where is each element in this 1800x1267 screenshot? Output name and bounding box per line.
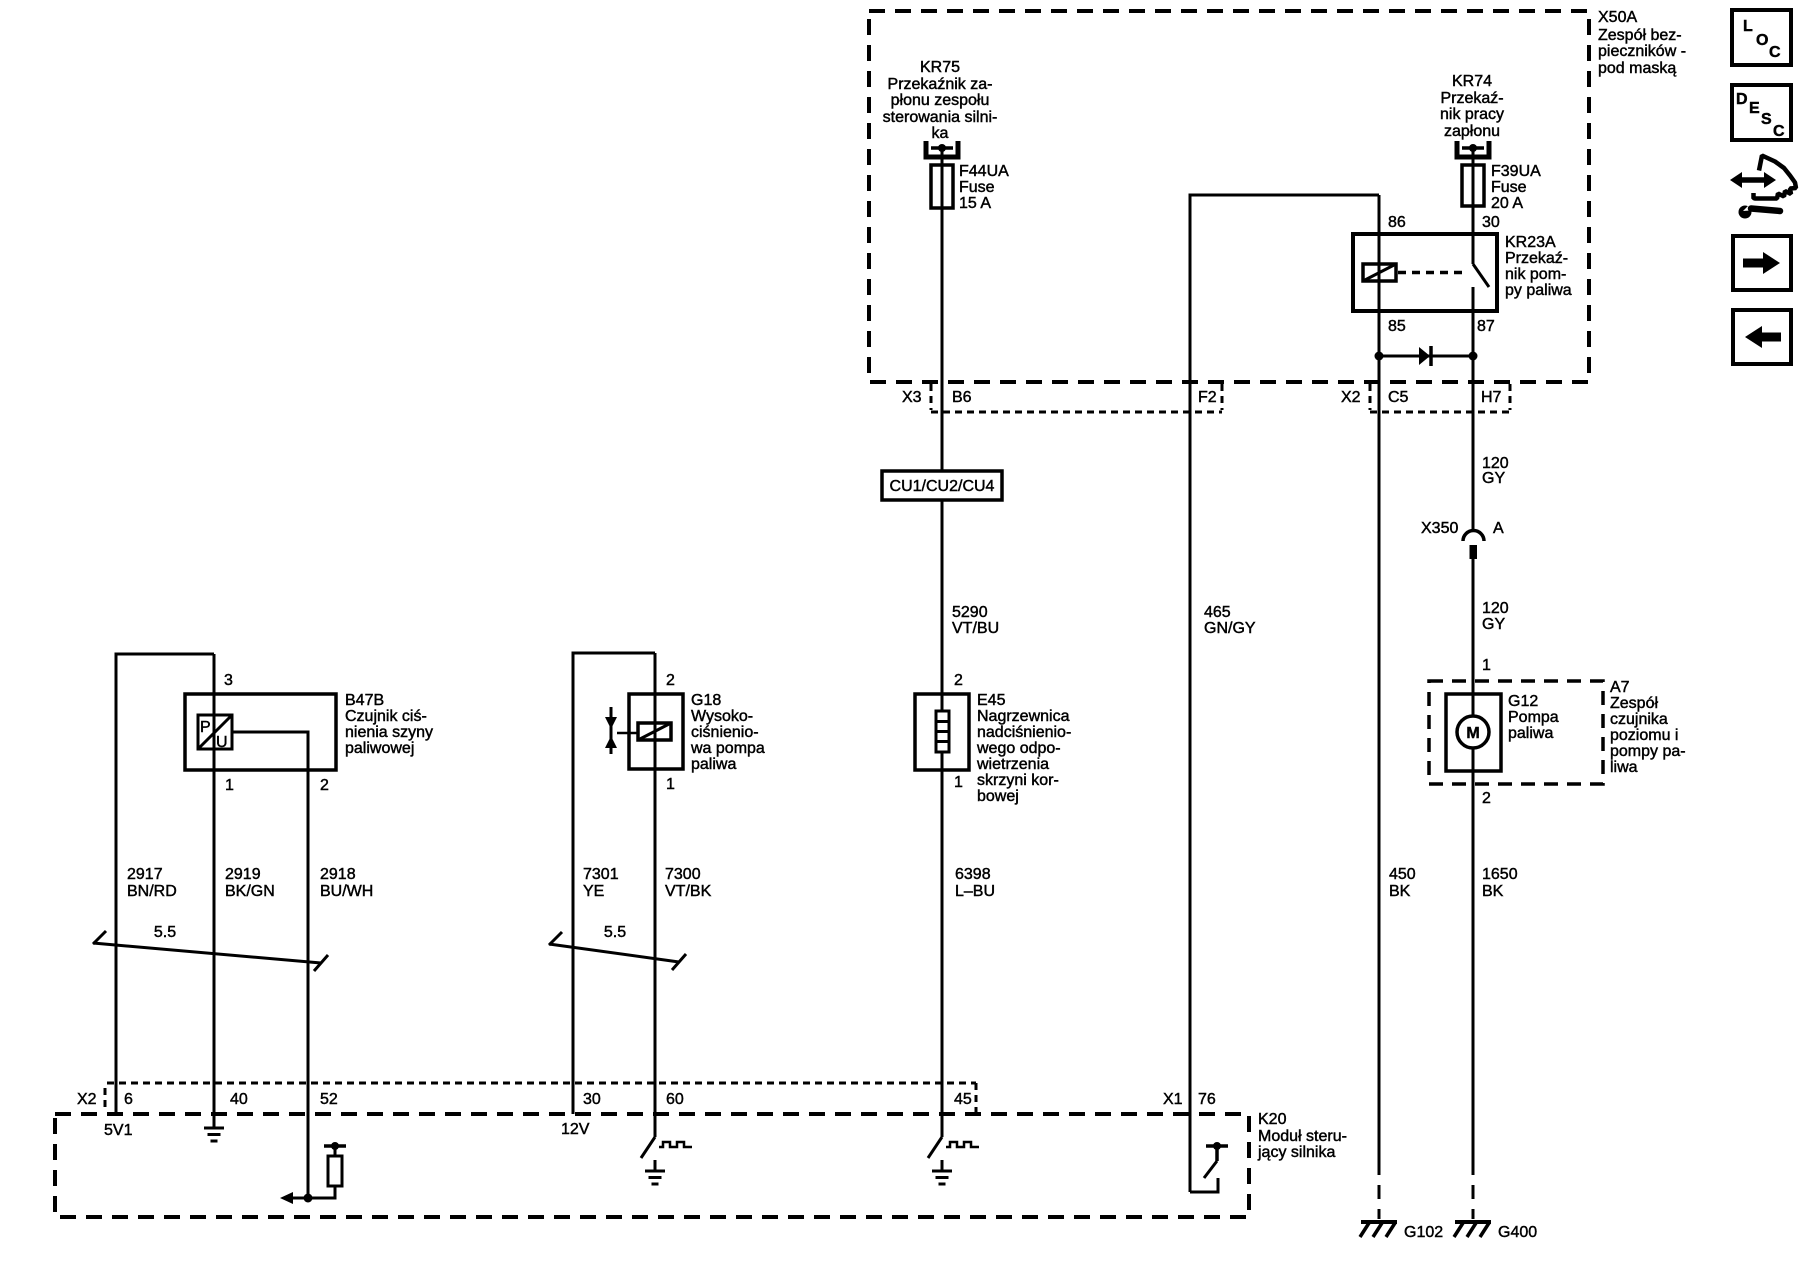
svg-text:BK: BK (1389, 883, 1411, 900)
PWM symbol pin 60 (659, 1142, 692, 1147)
pull-up resistor and arrow at pin 52 (280, 1142, 346, 1204)
svg-text:15 A: 15 A (959, 195, 991, 212)
pump G18 box (629, 694, 683, 769)
svg-text:2: 2 (666, 672, 675, 689)
svg-text:G400: G400 (1498, 1224, 1537, 1241)
svg-text:B47B: B47B (345, 692, 384, 709)
svg-text:KR23A: KR23A (1505, 234, 1556, 251)
svg-text:KR74: KR74 (1452, 73, 1492, 90)
sensor B47B box (185, 694, 336, 770)
svg-text:Zespół bez-: Zespół bez- (1598, 27, 1682, 44)
svg-text:76: 76 (1198, 1091, 1216, 1108)
svg-text:Przekaźnik za-: Przekaźnik za- (888, 76, 993, 93)
svg-text:bowej: bowej (977, 788, 1019, 805)
svg-text:X2: X2 (77, 1091, 97, 1108)
svg-text:F39UA: F39UA (1491, 163, 1541, 180)
relay contact symbol KR75 (926, 141, 958, 157)
svg-text:paliwowej: paliwowej (345, 740, 414, 757)
svg-text:2918: 2918 (320, 866, 356, 883)
svg-text:1: 1 (666, 776, 675, 793)
svg-text:py paliwa: py paliwa (1505, 282, 1572, 299)
svg-text:C: C (1773, 123, 1785, 140)
connector strip K20 X2 dotted line (107, 1082, 976, 1085)
svg-text:F2: F2 (1198, 389, 1217, 406)
svg-text:5.5: 5.5 (154, 924, 176, 941)
svg-text:CU1/CU2/CU4: CU1/CU2/CU4 (890, 478, 995, 495)
svg-text:ciśnienio-: ciśnienio- (691, 724, 759, 741)
svg-text:5290: 5290 (952, 604, 988, 621)
svg-text:3: 3 (224, 672, 233, 689)
fuse F44UA (931, 165, 953, 208)
svg-text:86: 86 (1388, 214, 1406, 231)
wire 465 GN/GY (1190, 195, 1379, 1192)
svg-text:GY: GY (1482, 470, 1505, 487)
svg-text:X3: X3 (902, 389, 922, 406)
wire gauge 5.5 annotation G18 (549, 932, 686, 970)
svg-text:YE: YE (583, 883, 604, 900)
svg-text:skrzyni kor-: skrzyni kor- (977, 772, 1059, 789)
svg-text:VT/BK: VT/BK (665, 883, 712, 900)
svg-text:L: L (1743, 18, 1753, 35)
icon arrow left (1733, 310, 1791, 364)
ground G400 (1454, 1222, 1491, 1237)
P/U transducer symbol (198, 715, 232, 749)
svg-text:Zespół: Zespół (1610, 695, 1658, 712)
wire fuse 30 to relay contact (1472, 148, 1475, 264)
svg-text:7301: 7301 (583, 866, 619, 883)
wire 87 down (1472, 287, 1475, 531)
svg-text:C5: C5 (1388, 389, 1409, 406)
svg-text:40: 40 (230, 1091, 248, 1108)
svg-text:5V1: 5V1 (104, 1122, 133, 1139)
svg-text:paliwa: paliwa (691, 756, 736, 773)
svg-text:A7: A7 (1610, 679, 1630, 696)
svg-text:5.5: 5.5 (604, 924, 626, 941)
G12 motor circle (1457, 716, 1489, 748)
svg-text:liwa: liwa (1610, 759, 1638, 776)
connector strip right end (975, 1083, 978, 1113)
svg-text:GN/GY: GN/GY (1204, 620, 1256, 637)
svg-text:2919: 2919 (225, 866, 261, 883)
svg-text:BK: BK (1482, 883, 1504, 900)
wire gauge 5.5 annotation left (93, 931, 328, 971)
icon vehicle with arrow and wrench (1730, 156, 1796, 219)
ground in K20 pin 60 (645, 1171, 665, 1184)
pump G12 box (1446, 694, 1501, 771)
svg-text:Przekaź-: Przekaź- (1440, 90, 1503, 107)
wire 2918 BU/WH (232, 732, 308, 1198)
svg-text:X50A: X50A (1598, 9, 1637, 26)
switch in K20 pin 45 (928, 1137, 942, 1171)
svg-text:nik pracy: nik pracy (1440, 106, 1504, 123)
text labels top (883, 59, 1504, 142)
fuse block X50A dashed box (869, 11, 1589, 382)
svg-text:nik pom-: nik pom- (1505, 266, 1566, 283)
svg-text:E45: E45 (977, 692, 1006, 709)
svg-text:6: 6 (124, 1091, 133, 1108)
svg-text:pompy pa-: pompy pa- (1610, 743, 1686, 760)
svg-text:pod maską: pod maską (1598, 60, 1676, 77)
diode across 85-87 (1375, 346, 1478, 366)
wire 2917 BN/RD (116, 654, 214, 1114)
svg-text:paliwa: paliwa (1508, 725, 1553, 742)
svg-text:wego odpo-: wego odpo- (976, 740, 1061, 757)
svg-text:D: D (1736, 91, 1748, 108)
connector divider X3 (930, 384, 933, 410)
relay contact symbol KR74 (1457, 141, 1489, 157)
svg-text:Nagrzewnica: Nagrzewnica (977, 708, 1070, 725)
svg-text:GY: GY (1482, 616, 1505, 633)
svg-text:52: 52 (320, 1091, 338, 1108)
svg-text:U: U (216, 734, 228, 751)
svg-text:BN/RD: BN/RD (127, 883, 177, 900)
connector divider X2 (1369, 384, 1372, 410)
svg-text:BK/GN: BK/GN (225, 883, 275, 900)
svg-text:G12: G12 (1508, 693, 1538, 710)
relay contact arm (1473, 264, 1489, 287)
svg-text:85: 85 (1388, 318, 1406, 335)
wire KR75 to E45 column (941, 148, 944, 1137)
switch in K20 pin 60 (641, 1137, 655, 1171)
heater E45 box (915, 694, 969, 770)
connector divider X2 bottom (104, 1088, 107, 1112)
icon DESC (1732, 85, 1791, 140)
svg-text:K20: K20 (1258, 1111, 1287, 1128)
connector strip X2/C5-H7 dotted line (1370, 411, 1510, 414)
svg-text:płonu zespołu: płonu zespołu (891, 92, 990, 109)
ground in K20 pin 40 (204, 1128, 224, 1141)
svg-text:Fuse: Fuse (959, 179, 995, 196)
svg-text:2: 2 (320, 777, 329, 794)
svg-text:nienia szyny: nienia szyny (345, 724, 433, 741)
svg-text:P: P (200, 719, 211, 736)
svg-text:B6: B6 (952, 389, 972, 406)
ground wire dashed G102 (1378, 1161, 1381, 1219)
svg-text:Wysoko-: Wysoko- (691, 708, 753, 725)
switch in K20 pin 76 (1190, 1142, 1228, 1192)
svg-text:2: 2 (1482, 790, 1491, 807)
svg-text:wietrzenia: wietrzenia (976, 756, 1049, 773)
svg-text:465: 465 (1204, 604, 1231, 621)
svg-text:7300: 7300 (665, 866, 701, 883)
relay coil (1363, 264, 1396, 281)
svg-text:F44UA: F44UA (959, 163, 1009, 180)
svg-text:120: 120 (1482, 600, 1509, 617)
wire 2919 BK/GN (213, 654, 216, 1128)
svg-text:12V: 12V (561, 1121, 590, 1138)
svg-text:Pompa: Pompa (1508, 709, 1559, 726)
svg-text:czujnika: czujnika (1610, 711, 1668, 728)
svg-text:Czujnik ciś-: Czujnik ciś- (345, 708, 427, 725)
svg-text:L–BU: L–BU (955, 883, 995, 900)
connector strip X3/B6-F2 dotted line (931, 411, 1222, 414)
svg-text:1: 1 (954, 774, 963, 791)
svg-text:pieczników -: pieczników - (1598, 43, 1686, 60)
wire coil 86-85 (1378, 195, 1381, 1161)
connector divider H7 (1509, 384, 1512, 410)
ground wire dashed G400 (1472, 1161, 1475, 1219)
svg-text:X350: X350 (1421, 520, 1458, 537)
svg-text:60: 60 (666, 1091, 684, 1108)
svg-text:zapłonu: zapłonu (1444, 123, 1500, 140)
svg-text:H7: H7 (1481, 389, 1502, 406)
svg-text:X1: X1 (1163, 1091, 1183, 1108)
svg-text:O: O (1756, 32, 1768, 49)
connector divider F2 (1221, 384, 1224, 410)
svg-text:S: S (1761, 111, 1772, 128)
svg-text:X2: X2 (1341, 389, 1361, 406)
svg-text:KR75: KR75 (920, 59, 960, 76)
splice pack CU1/CU2/CU4 (882, 471, 1002, 500)
assembly A7 dashed box (1429, 681, 1603, 784)
wire 7301 YE (573, 653, 655, 1114)
module K20 dashed box (55, 1114, 1249, 1217)
inline connector X350 (1463, 531, 1484, 560)
wire 7300 VT/BK (654, 653, 657, 1137)
svg-text:2: 2 (954, 672, 963, 689)
svg-text:G18: G18 (691, 692, 721, 709)
svg-text:1: 1 (225, 777, 234, 794)
G18 valve symbol (605, 707, 638, 754)
svg-text:Przekaź-: Przekaź- (1505, 250, 1568, 267)
svg-text:nadciśnienio-: nadciśnienio- (977, 724, 1071, 741)
svg-text:20 A: 20 A (1491, 195, 1523, 212)
wire 120 GY lower (1472, 559, 1475, 1161)
svg-text:30: 30 (1482, 214, 1500, 231)
svg-text:sterowania silni-: sterowania silni- (883, 109, 998, 126)
svg-text:30: 30 (583, 1091, 601, 1108)
relay actuator dashed link (1398, 271, 1468, 275)
svg-text:ka: ka (932, 125, 949, 142)
svg-text:Moduł steru-: Moduł steru- (1258, 1128, 1347, 1145)
svg-text:jący silnika: jący silnika (1257, 1144, 1335, 1161)
svg-text:87: 87 (1477, 318, 1495, 335)
svg-text:G102: G102 (1404, 1224, 1443, 1241)
svg-text:poziomu i: poziomu i (1610, 727, 1678, 744)
ground G102 (1360, 1222, 1397, 1237)
fuse F39UA (1462, 165, 1484, 206)
svg-text:Fuse: Fuse (1491, 179, 1527, 196)
icon LOC (1732, 10, 1791, 65)
ground in K20 pin 45 (932, 1171, 952, 1184)
svg-text:2917: 2917 (127, 866, 163, 883)
svg-text:A: A (1493, 520, 1504, 537)
svg-text:M: M (1466, 725, 1479, 742)
svg-text:1: 1 (1482, 657, 1491, 674)
PWM symbol pin 45 (946, 1142, 979, 1147)
svg-text:45: 45 (954, 1091, 972, 1108)
svg-text:BU/WH: BU/WH (320, 883, 373, 900)
svg-text:C: C (1769, 44, 1781, 61)
svg-text:1650: 1650 (1482, 866, 1518, 883)
icon arrow right (1733, 236, 1791, 290)
svg-text:E: E (1749, 100, 1760, 117)
svg-text:6398: 6398 (955, 866, 991, 883)
wire through P/U (213, 694, 216, 770)
svg-text:VT/BU: VT/BU (952, 620, 999, 637)
relay KR23A box (1353, 234, 1497, 311)
E45 heater element (936, 711, 949, 752)
svg-text:wa pompa: wa pompa (690, 740, 765, 757)
G18 coil (638, 723, 671, 740)
svg-text:450: 450 (1389, 866, 1416, 883)
